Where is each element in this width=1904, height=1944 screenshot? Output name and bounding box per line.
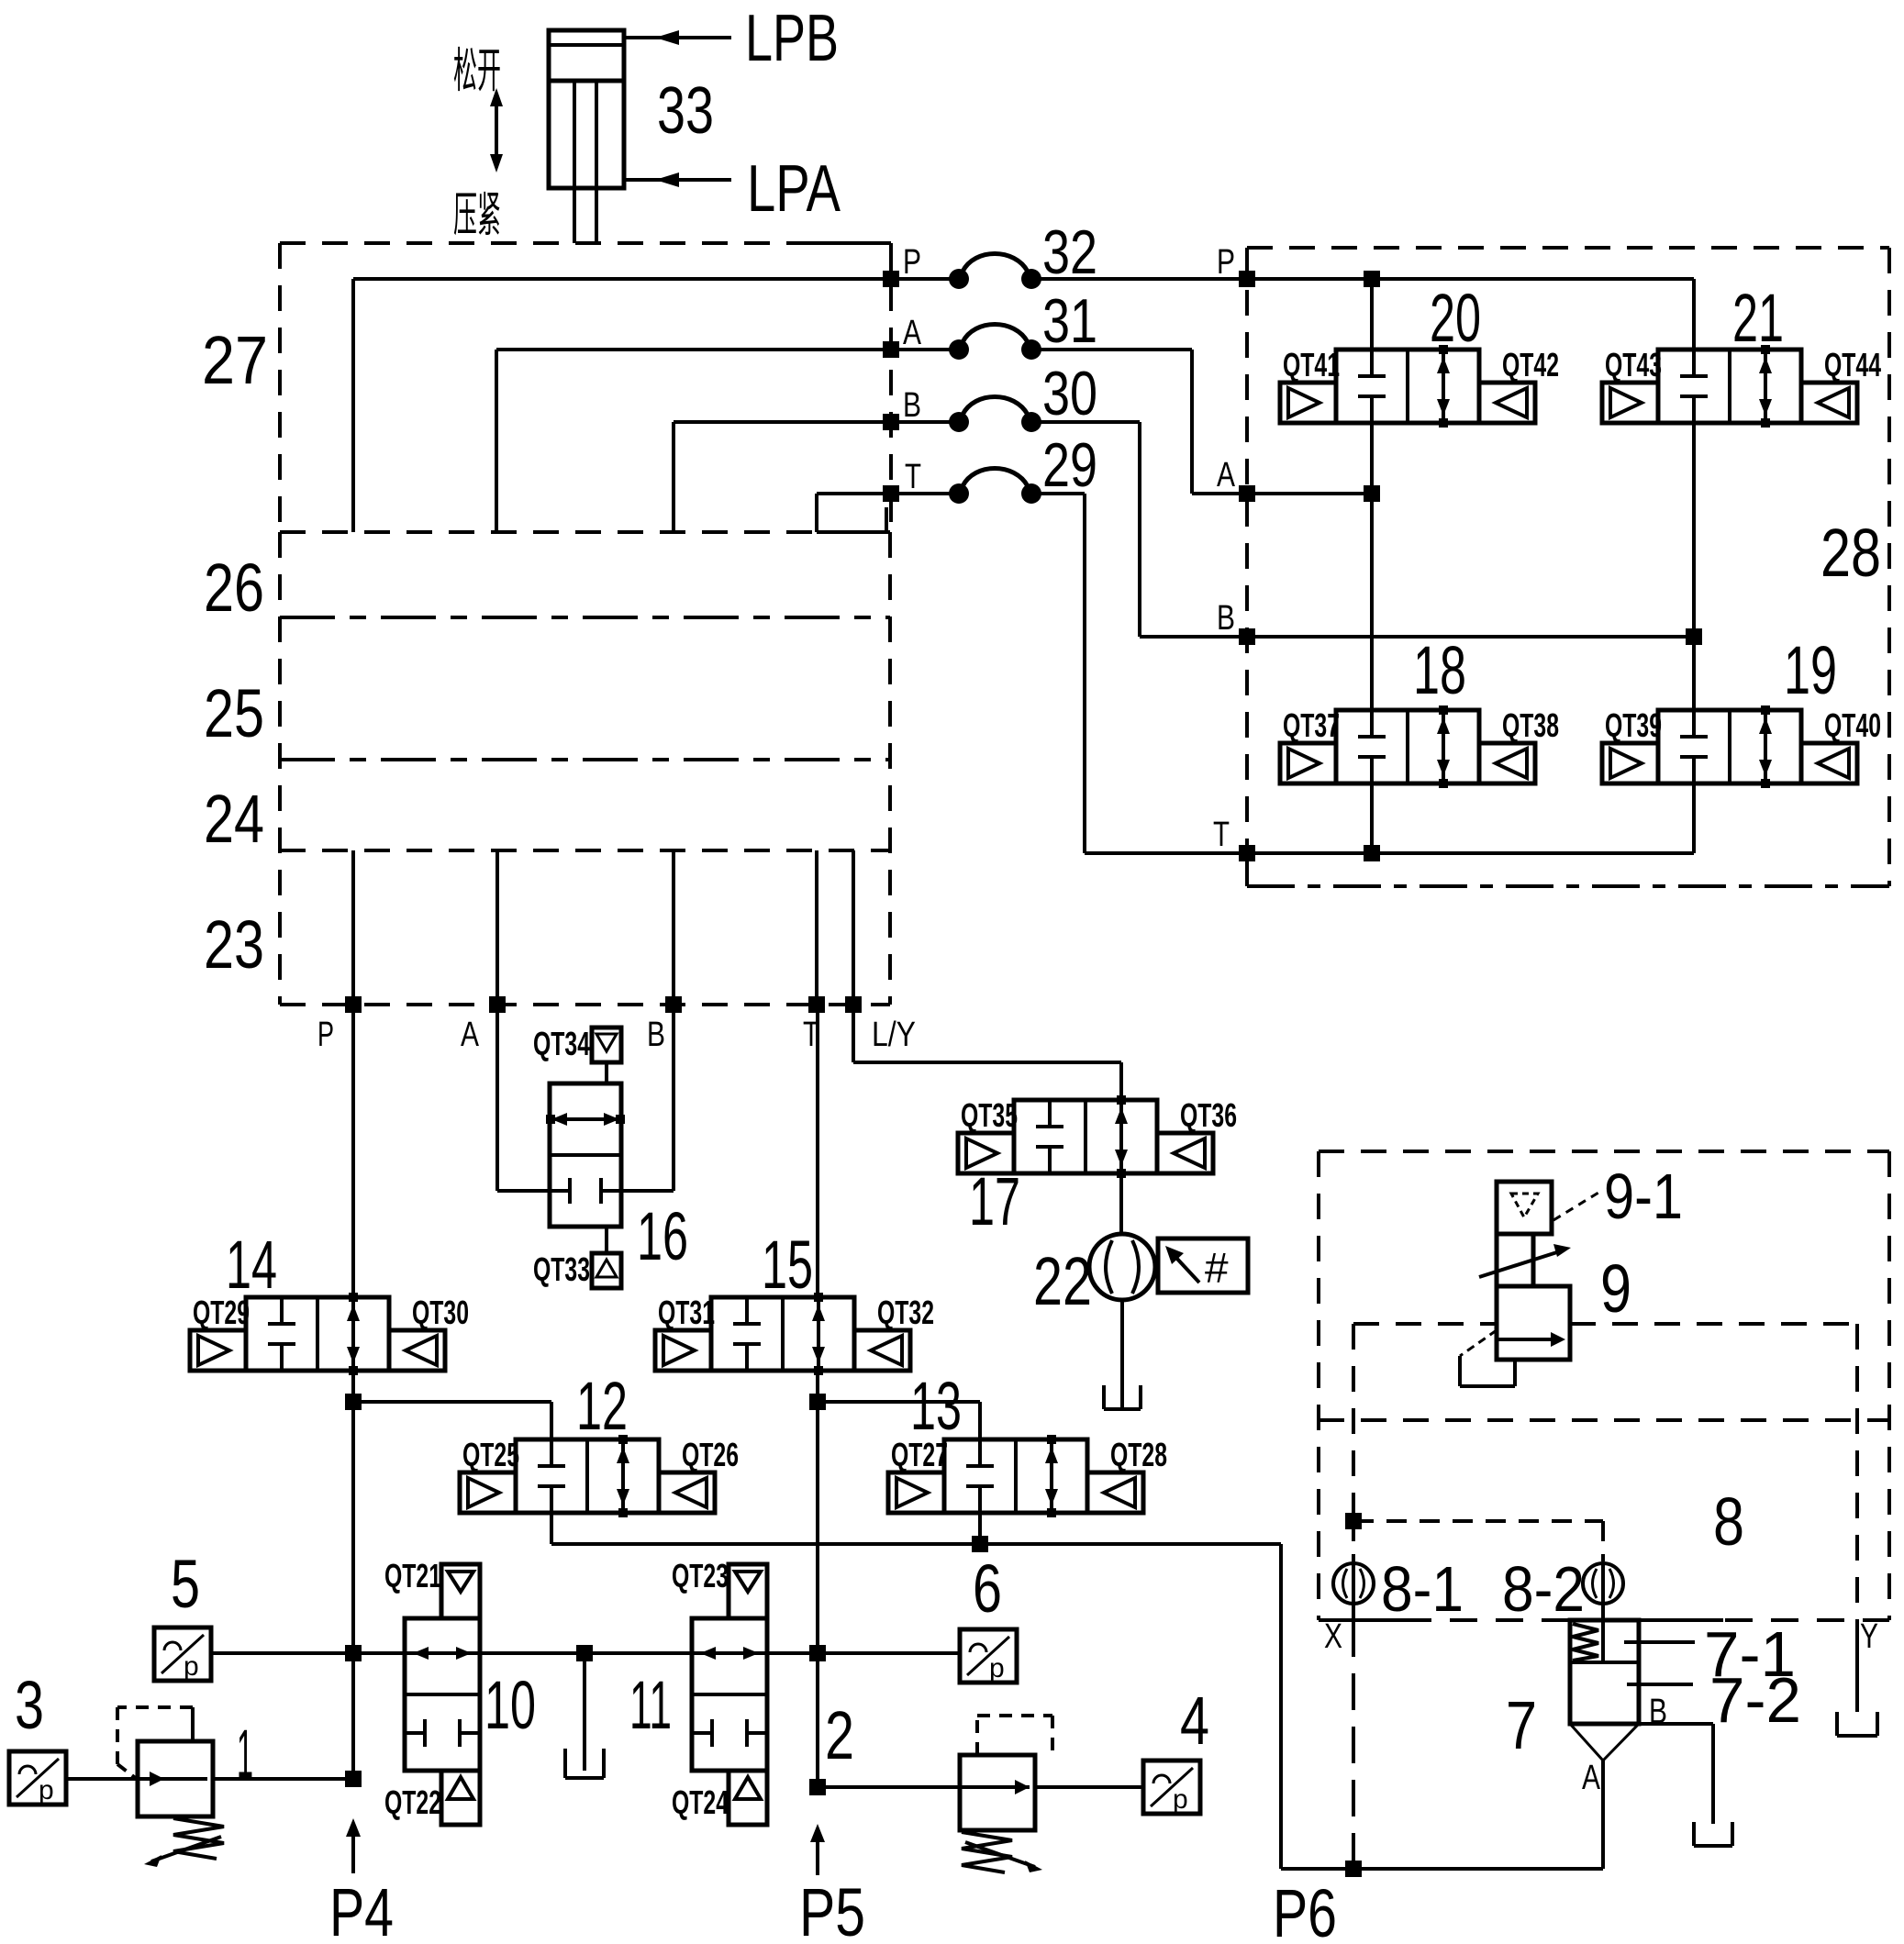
- node B23: [665, 996, 682, 1013]
- svg-text:15: 15: [762, 1227, 813, 1303]
- valve 19: [1658, 710, 1801, 783]
- wire T28: [1247, 851, 1694, 855]
- tank drop: [583, 1653, 586, 1771]
- separator 26/25: [280, 616, 890, 619]
- svg-text:QT35: QT35: [961, 1096, 1018, 1134]
- valve 2 body: [960, 1755, 1035, 1830]
- orifice 8-2: [1583, 1563, 1623, 1604]
- svg-text:22: 22: [1033, 1243, 1092, 1319]
- svg-text:33: 33: [657, 74, 714, 148]
- bottom edge boxes: [1404, 1618, 1889, 1622]
- svg-text:29: 29: [1042, 430, 1097, 500]
- X pilot node: [1345, 1513, 1362, 1529]
- wire A in box27: [496, 348, 891, 351]
- svg-text:QT36: QT36: [1180, 1096, 1237, 1134]
- svg-text:2: 2: [825, 1697, 854, 1773]
- svg-text:4: 4: [1180, 1683, 1209, 1759]
- svg-text:24: 24: [204, 781, 264, 857]
- wire 30 to box28: [1031, 420, 1140, 424]
- valve 1 pilot: [191, 1707, 195, 1741]
- node T27: [883, 485, 899, 502]
- meter tank: [1102, 1385, 1106, 1409]
- svg-text:QT31: QT31: [658, 1294, 715, 1331]
- svg-text:P: P: [1217, 243, 1235, 282]
- svg-text:QT37: QT37: [1283, 706, 1340, 744]
- valve 7 A line: [1601, 1761, 1605, 1869]
- P6 line: [1281, 1867, 1603, 1871]
- valve 9 body: [1497, 1286, 1570, 1360]
- svg-text:9-1: 9-1: [1604, 1161, 1683, 1232]
- svg-text:10: 10: [484, 1667, 536, 1743]
- svg-text:16: 16: [637, 1198, 688, 1274]
- svg-text:B: B: [647, 1016, 665, 1054]
- wire 32 to box28: [1031, 277, 1247, 281]
- manifold box 28 right: [1887, 248, 1891, 886]
- svg-text:P: P: [317, 1016, 334, 1054]
- wire to valve 13: [818, 1400, 980, 1404]
- svg-text:9: 9: [1600, 1250, 1631, 1327]
- node T28: [1239, 845, 1255, 861]
- X line to orifice: [1352, 1521, 1355, 1561]
- svg-text:L/Y: L/Y: [872, 1016, 916, 1054]
- svg-text:QT41: QT41: [1283, 346, 1340, 383]
- svg-text:13: 13: [910, 1368, 962, 1444]
- node A27: [883, 341, 899, 358]
- coupler 32: [949, 269, 969, 289]
- wire LY to v17: [852, 1005, 855, 1062]
- node P-gauge: [345, 1645, 362, 1661]
- separator 27/26: [280, 530, 890, 534]
- P5 arrow: [810, 1824, 825, 1842]
- gauge3 wire: [66, 1777, 138, 1781]
- wire P in box27: [353, 277, 891, 281]
- wire A to coupler 31: [898, 348, 959, 351]
- gauge wire: [211, 1651, 960, 1655]
- valve 9 adjust arrow: [1479, 1251, 1560, 1277]
- svg-text:QT22: QT22: [384, 1783, 441, 1821]
- svg-text:QT38: QT38: [1502, 706, 1559, 744]
- valve 13 out: [978, 1513, 982, 1544]
- svg-text:30: 30: [1042, 359, 1097, 428]
- separator 25/24: [280, 758, 890, 761]
- outer dashed box: [1319, 1150, 1889, 1153]
- svg-text:A: A: [1582, 1759, 1601, 1797]
- valve 1 body: [138, 1741, 213, 1816]
- wire P down: [351, 1005, 355, 1297]
- svg-text:QT25: QT25: [462, 1436, 519, 1473]
- svg-text:8-1: 8-1: [1381, 1553, 1464, 1625]
- svg-text:QT44: QT44: [1824, 346, 1881, 383]
- indicator box: [1158, 1239, 1248, 1293]
- stem v21 bottom: [1692, 423, 1696, 637]
- gauge 4: [1143, 1761, 1200, 1814]
- stem v18 top: [1370, 494, 1374, 710]
- valve 16 body: [550, 1083, 621, 1227]
- svg-text:松开: 松开: [453, 45, 501, 98]
- tank mid: [563, 1749, 567, 1778]
- inner box 8 top: [1353, 1322, 1497, 1326]
- valve 1 spring: [173, 1818, 224, 1859]
- wire B to coupler 30: [898, 420, 959, 424]
- svg-text:A: A: [903, 314, 922, 352]
- valve 7 cone: [1570, 1724, 1603, 1761]
- svg-text:19: 19: [1784, 632, 1837, 708]
- X line lower: [1352, 1604, 1355, 1620]
- separator 24/23: [280, 849, 890, 852]
- valve 13: [944, 1439, 1087, 1513]
- svg-text:QT33: QT33: [533, 1250, 590, 1288]
- valve 16 bottom sensor QT33: [605, 1227, 608, 1253]
- stem v20 bottom: [1370, 423, 1374, 494]
- wire 31 to box28: [1031, 348, 1192, 351]
- svg-text:8-2: 8-2: [1502, 1553, 1585, 1625]
- node T28a: [1364, 845, 1380, 861]
- wire T in box27: [817, 492, 891, 495]
- tank Y: [1835, 1712, 1839, 1736]
- svg-text:QT21: QT21: [384, 1557, 441, 1594]
- svg-text:12: 12: [576, 1368, 628, 1444]
- svg-text:14: 14: [226, 1227, 277, 1303]
- svg-text:Y: Y: [1860, 1617, 1878, 1656]
- valve 12: [516, 1439, 659, 1513]
- gauge 6: [960, 1629, 1017, 1683]
- motion double arrow: [495, 99, 498, 161]
- node T-13: [809, 1394, 826, 1410]
- valve 9-1 sensor box: [1497, 1182, 1552, 1234]
- svg-text:20: 20: [1430, 280, 1481, 356]
- manifold box 28 top: [1247, 246, 1889, 250]
- manifold box 28 left: [1245, 248, 1249, 861]
- wire T mid: [816, 1371, 819, 1787]
- valve2 wire: [818, 1785, 960, 1789]
- svg-text:25: 25: [204, 675, 264, 751]
- node P27: [883, 271, 899, 287]
- node P28: [1239, 271, 1255, 287]
- coupler 29: [949, 483, 969, 504]
- manifold box 26-23 right edge: [888, 532, 892, 1005]
- wire LY box23: [852, 850, 855, 1005]
- manifold box 26-23 left edge: [278, 532, 282, 1005]
- wire to P6: [551, 1542, 1281, 1546]
- stem v17 to meter: [1119, 1173, 1123, 1235]
- wire 29 to box28: [1031, 492, 1085, 495]
- meter drain: [1120, 1300, 1124, 1407]
- svg-text:17: 17: [969, 1163, 1020, 1239]
- svg-text:27: 27: [202, 322, 268, 398]
- valve 18: [1336, 710, 1479, 783]
- node 13 out: [972, 1536, 988, 1552]
- svg-text:21: 21: [1732, 280, 1784, 356]
- cylinder 33 rod: [573, 83, 576, 243]
- svg-text:6: 6: [973, 1550, 1002, 1627]
- valve 12 out: [550, 1513, 553, 1544]
- svg-text:p: p: [184, 1651, 199, 1682]
- wire P mid: [351, 1371, 355, 1779]
- Y line: [1855, 1620, 1859, 1712]
- svg-text:QT34: QT34: [533, 1025, 590, 1062]
- node P28a: [1364, 271, 1380, 287]
- valve 15: [711, 1297, 854, 1371]
- wire B down: [672, 1005, 675, 1191]
- divider line: [1319, 1418, 1889, 1422]
- valve 7 B line: [1639, 1722, 1713, 1726]
- wire B box23: [672, 850, 675, 1005]
- svg-text:B: B: [1217, 599, 1235, 638]
- svg-text:28: 28: [1820, 515, 1881, 591]
- svg-text:X: X: [1324, 1617, 1342, 1656]
- label 9-1 leader: [1553, 1193, 1598, 1220]
- valve 11: [692, 1618, 767, 1771]
- stem v19 top: [1692, 637, 1696, 710]
- inner box 8 left: [1352, 1324, 1355, 1521]
- node mid tank: [576, 1645, 593, 1661]
- node T-gauge: [809, 1645, 826, 1661]
- svg-text:P: P: [903, 243, 921, 282]
- manifold box 27: [280, 241, 817, 245]
- svg-text:QT30: QT30: [412, 1294, 469, 1331]
- wire A box23: [495, 850, 499, 1005]
- gauge 3: [9, 1751, 66, 1805]
- svg-text:QT23: QT23: [672, 1557, 729, 1594]
- port LPB wire: [624, 36, 731, 39]
- node A28: [1239, 485, 1255, 502]
- node T23: [808, 996, 825, 1013]
- valve 9 pilot hook: [1460, 1330, 1497, 1356]
- node A23: [489, 996, 506, 1013]
- svg-text:P4: P4: [329, 1874, 394, 1944]
- svg-text:QT32: QT32: [877, 1294, 934, 1331]
- svg-text:QT28: QT28: [1110, 1436, 1167, 1473]
- manifold box 28 bottom: [1245, 861, 1249, 886]
- svg-text:压紧: 压紧: [453, 189, 501, 242]
- wire A down: [495, 1005, 499, 1191]
- tank B: [1692, 1822, 1696, 1846]
- node LY23: [845, 996, 862, 1013]
- svg-text:p: p: [989, 1653, 1005, 1683]
- svg-text:T: T: [905, 458, 921, 496]
- coupler 31: [949, 339, 969, 360]
- orifice 8-1: [1333, 1563, 1374, 1604]
- svg-text:11: 11: [629, 1667, 672, 1743]
- svg-text:QT40: QT40: [1824, 706, 1881, 744]
- node B27: [883, 414, 899, 430]
- wire T box23: [815, 850, 818, 1005]
- wire T down: [816, 1005, 819, 1297]
- svg-text:QT42: QT42: [1502, 346, 1559, 383]
- svg-text:P5: P5: [799, 1874, 865, 1944]
- svg-text:23: 23: [204, 906, 264, 983]
- svg-text:QT24: QT24: [672, 1783, 729, 1821]
- svg-text:P6: P6: [1273, 1875, 1337, 1944]
- svg-text:QT26: QT26: [682, 1436, 739, 1473]
- node X-P6: [1345, 1861, 1362, 1877]
- svg-text:26: 26: [204, 550, 264, 626]
- valve 17: [1014, 1100, 1157, 1173]
- valve 2 pilot: [975, 1716, 979, 1755]
- valve 9 solenoid box: [1497, 1234, 1533, 1286]
- valve 14: [246, 1297, 389, 1371]
- coupler 30: [949, 412, 969, 432]
- node A28a: [1364, 485, 1380, 502]
- svg-text:7: 7: [1506, 1687, 1537, 1763]
- 8-2 to valve 7: [1601, 1604, 1605, 1620]
- inner box 8 right: [1855, 1324, 1859, 1620]
- valve 10: [405, 1618, 480, 1771]
- node P-12: [345, 1394, 362, 1410]
- wire B in box27: [674, 420, 891, 424]
- valve 21: [1658, 350, 1801, 423]
- wire P to coupler 32: [898, 277, 959, 281]
- valve 2 spring: [962, 1832, 1012, 1872]
- stem v20 top: [1370, 279, 1374, 350]
- flow meter 22: [1089, 1234, 1155, 1300]
- svg-text:5: 5: [171, 1546, 200, 1622]
- stem v21 top: [1692, 279, 1696, 350]
- cylinder 33 barrel: [549, 30, 624, 188]
- valve 20: [1336, 350, 1479, 423]
- node P23: [345, 996, 362, 1013]
- svg-text:8: 8: [1713, 1483, 1744, 1560]
- svg-text:QT43: QT43: [1605, 346, 1662, 383]
- svg-text:LPA: LPA: [747, 152, 841, 226]
- svg-text:1: 1: [237, 1716, 253, 1792]
- pilot dashed to 8-2: [1353, 1519, 1603, 1523]
- valve 16 top sensor QT34: [605, 1062, 608, 1083]
- svg-text:T: T: [1213, 816, 1230, 854]
- svg-text:32: 32: [1042, 217, 1097, 287]
- svg-text:p: p: [1173, 1784, 1188, 1815]
- wire T to coupler 29: [898, 492, 959, 495]
- svg-text:18: 18: [1413, 632, 1466, 708]
- svg-text:LPB: LPB: [745, 2, 839, 75]
- svg-text:p: p: [39, 1775, 54, 1805]
- svg-text:A: A: [461, 1016, 480, 1054]
- node B28: [1239, 628, 1255, 645]
- port LPA wire: [624, 178, 731, 182]
- wire to valve 12: [353, 1400, 551, 1404]
- svg-text:31: 31: [1042, 286, 1097, 356]
- stem v19 bottom: [1692, 783, 1696, 853]
- node B28a: [1686, 628, 1702, 645]
- node P-1: [345, 1771, 362, 1787]
- svg-text:A: A: [1217, 456, 1236, 494]
- svg-text:#: #: [1205, 1244, 1229, 1292]
- P4 arrow: [346, 1818, 361, 1837]
- wire P28: [1247, 277, 1694, 281]
- label 7-1 leader: [1624, 1640, 1695, 1644]
- label 7-2 leader: [1627, 1683, 1693, 1686]
- wire A28: [1247, 492, 1372, 495]
- valve 7 body: [1570, 1620, 1639, 1724]
- node T-2: [809, 1779, 826, 1795]
- svg-text:3: 3: [15, 1667, 44, 1743]
- wire T hook: [817, 530, 886, 534]
- svg-text:QT39: QT39: [1605, 706, 1662, 744]
- gauge 5: [154, 1627, 211, 1681]
- wire B28: [1247, 635, 1694, 639]
- svg-text:7-2: 7-2: [1709, 1664, 1801, 1736]
- wire P box23: [351, 850, 355, 1005]
- bottom line box 23: [280, 1003, 890, 1006]
- stem v18 bottom: [1370, 783, 1374, 853]
- svg-text:B: B: [903, 386, 921, 425]
